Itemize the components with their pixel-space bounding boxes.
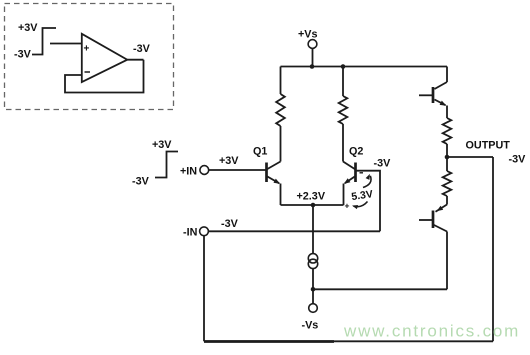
transistor Q2 [343,162,356,184]
transistor Q1 [267,162,281,184]
wire (bottom feedback rail, thick left segment) [204,340,334,343]
wire (R2 to Q2 collector) [342,124,344,162]
input step waveform [155,152,178,178]
wire (-IN down to feedback rail) [203,236,205,342]
wire (current source to -Vs node) [312,269,314,290]
svg-text:+2.3V: +2.3V [297,191,326,203]
wire (rail to R2) [342,67,344,97]
wire (-IN to Q2 base riser) [208,230,380,232]
resistor R4 [443,171,452,196]
svg-text:-3V: -3V [14,49,32,61]
svg-text:-3V: -3V [509,154,527,166]
node (rail junction left) [310,64,315,69]
wire (common emitter rail) [281,204,344,206]
wire (Q4 collector down to tail) [446,232,448,290]
inset dashed box [5,4,174,110]
wire (R1 to +Vs rail) [280,67,282,95]
wire (tail junction to output transistor) [313,288,447,290]
op-amp - pin mark [85,71,91,73]
wire (+Vs terminal to rail) [312,48,314,66]
node (rail junction right) [341,64,346,69]
node (emitter junction) [311,203,316,208]
svg-text:+3V: +3V [219,155,239,167]
svg-text:+3V: +3V [18,22,38,34]
wire (emitter junction to current source) [312,205,314,254]
transistor Q3 (upper output, NPN) [419,82,447,106]
wire (Q2 emitter down) [343,184,345,206]
transistor Q4 (lower output, PNP) [419,205,447,232]
wire (tail junction to -Vs terminal) [312,289,314,303]
wire (R4 to Q4 emitter) [446,196,448,205]
node (output) [445,155,450,160]
resistor R2 (Q2 collector load) [339,96,348,124]
terminal +Vs [308,40,317,49]
svg-text:-Vs: -Vs [302,320,319,332]
wire (inset op-amp +input) [50,43,82,45]
svg-text:-3V: -3V [132,176,150,188]
svg-text:OUTPUT: OUTPUT [466,140,511,152]
terminal -Vs [309,304,318,313]
svg-text:+3V: +3V [152,139,172,151]
wire (output feedback right side down) [492,157,494,341]
wire (output node right) [447,156,493,158]
wire (output node to R4) [446,157,448,171]
current source I1 [308,254,317,263]
wire (inset op-amp output) [127,59,143,61]
svg-text:-3V: -3V [221,218,239,230]
svg-text:-IN: -IN [183,227,198,239]
svg-text:+: + [345,201,350,211]
resistor R1 (Q1 collector load) [276,94,285,126]
wire (Q1 emitter down) [280,184,282,206]
wire (R3 to output node) [446,144,448,157]
wire (Q1 collector up) [280,126,282,162]
wire (bottom feedback rail) [204,340,493,342]
resistor R3 [443,118,452,144]
node (tail junction) [311,287,316,292]
wire (inset feedback loop to - input) [65,60,144,93]
inset input step waveform [32,28,56,55]
svg-text:+: + [84,44,90,55]
op-amp U1 [82,34,128,82]
svg-text:Q1: Q1 [253,146,267,158]
annotation arrow (5.3V lower) [354,202,368,207]
wire (+Vs top rail) [281,66,448,68]
terminal +IN [200,166,209,175]
annotation arrow (5.3V upper) [363,176,371,188]
svg-text:-3V: -3V [374,158,392,170]
wire (rail down to Q3 collector) [446,67,448,83]
wire (+IN to Q1 base) [209,169,267,171]
wire (Q3 emitter to R3) [446,106,448,119]
annotation mark (minus at Q2 base) [360,172,364,174]
svg-text:Q2: Q2 [349,146,363,158]
svg-text:+IN: +IN [180,166,197,178]
svg-text:www.cntronics.com: www.cntronics.com [343,322,520,341]
svg-text:+Vs: +Vs [298,29,318,41]
terminal -IN [200,227,209,236]
svg-text:-3V: -3V [133,43,151,55]
wire (Q2 base to -IN line) [356,171,381,232]
